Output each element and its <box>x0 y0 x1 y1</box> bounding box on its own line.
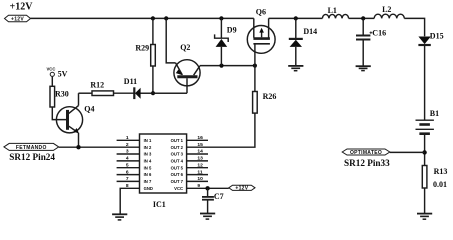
wire pin 10 stub <box>187 180 208 182</box>
capacitor C16 <box>356 18 370 65</box>
resistor R29 <box>151 18 156 93</box>
svg-text:11: 11 <box>197 169 202 175</box>
power flag +12V top-left <box>5 15 31 22</box>
svg-text:6: 6 <box>126 169 129 175</box>
node junction dot D9 anode <box>219 64 223 68</box>
ground below R13 <box>417 214 432 220</box>
wire Q2 emitter feed <box>166 18 175 63</box>
wire pin 8 stub to ground <box>120 188 139 214</box>
svg-text:OUT 5: OUT 5 <box>171 165 184 170</box>
svg-text:C16: C16 <box>372 28 386 37</box>
node junction dot D9/rail <box>219 16 223 20</box>
svg-text:IN 5: IN 5 <box>144 165 152 170</box>
svg-text:IN 3: IN 3 <box>144 152 152 157</box>
svg-text:OUT 7: OUT 7 <box>171 179 184 184</box>
transistor Q6 (MOSFET) <box>247 18 275 65</box>
svg-text:9: 9 <box>197 183 200 189</box>
wire pin 9 stub to +12V flag <box>187 187 229 189</box>
wire pin 6 stub <box>117 174 140 176</box>
node junction dot D14/rail <box>294 16 298 20</box>
svg-text:Q6: Q6 <box>256 7 266 16</box>
node junction dot battery/R13/flag <box>422 150 426 154</box>
node junction dot Q4 emitter/pin2 wire <box>76 145 80 149</box>
svg-text:5: 5 <box>126 162 129 168</box>
svg-text:R26: R26 <box>263 92 277 101</box>
IC1 pin numbers right <box>197 135 203 189</box>
svg-text:R29: R29 <box>135 43 149 52</box>
svg-text:1: 1 <box>126 135 129 141</box>
resistor R13 <box>422 166 427 214</box>
ground below pin 8 <box>112 214 127 220</box>
svg-text:10: 10 <box>197 176 203 182</box>
ground below C16 <box>356 66 371 70</box>
wire pin 16 stub <box>187 139 208 141</box>
wire pin 14 stub <box>187 153 208 155</box>
wire pin 7 stub <box>117 180 140 182</box>
svg-text:+12V: +12V <box>11 16 24 22</box>
svg-text:IN 2: IN 2 <box>144 145 152 150</box>
svg-text:OUT 2: OUT 2 <box>171 145 184 150</box>
resistor R12 <box>79 91 134 96</box>
wire pin 1 stub <box>117 139 140 141</box>
transistor Q2 (PNP) <box>174 60 200 93</box>
svg-text:OUT 6: OUT 6 <box>171 172 184 177</box>
wire +12V rail right segment <box>269 17 323 19</box>
node junction dot pin9/C7 <box>205 186 209 190</box>
polarity mark C16 <box>370 31 373 34</box>
svg-text:D15: D15 <box>430 31 444 40</box>
ground below C7 <box>200 214 215 220</box>
svg-text:SR12 Pin24: SR12 Pin24 <box>9 152 55 162</box>
wire Q2 collector line to gate node <box>200 65 255 67</box>
power flag +12V at pin 9 <box>229 185 255 190</box>
svg-text:0.01: 0.01 <box>433 180 447 189</box>
svg-text:C7: C7 <box>214 192 224 201</box>
wire pin 3 stub <box>117 153 140 155</box>
svg-text:+12V: +12V <box>235 186 248 192</box>
node junction dot Q2 emitter feed/rail <box>164 16 168 20</box>
svg-text:13: 13 <box>197 156 203 162</box>
svg-text:8: 8 <box>126 183 129 189</box>
resistor R30 <box>50 86 66 119</box>
svg-text:OUT 1: OUT 1 <box>171 138 184 143</box>
resistor R26 <box>187 66 257 148</box>
svg-text:R12: R12 <box>90 81 104 90</box>
wire pin 11 stub <box>187 174 208 176</box>
diode D11 <box>134 87 187 99</box>
svg-text:VCC: VCC <box>47 67 56 72</box>
net flag OPTIMATEO <box>342 149 424 155</box>
capacitor C7 <box>202 188 214 213</box>
svg-text:D9: D9 <box>227 26 237 35</box>
svg-text:OUT 4: OUT 4 <box>171 159 184 164</box>
svg-text:SR12 Pin33: SR12 Pin33 <box>344 158 390 168</box>
svg-text:OUT 3: OUT 3 <box>171 152 184 157</box>
svg-text:7: 7 <box>126 176 129 182</box>
net flag FETMANDO <box>4 143 140 150</box>
svg-text:3: 3 <box>126 149 129 155</box>
svg-text:D14: D14 <box>303 27 317 36</box>
svg-text:Q2: Q2 <box>180 43 190 52</box>
svg-text:L2: L2 <box>382 5 391 14</box>
ground below D14 <box>288 66 303 71</box>
svg-text:IN 7: IN 7 <box>144 179 152 184</box>
svg-text:14: 14 <box>197 149 203 155</box>
op-amp IC1 box <box>140 134 187 193</box>
inductor L1 <box>322 14 348 18</box>
svg-text:IN 1: IN 1 <box>144 138 152 143</box>
inductor L2 <box>374 14 404 18</box>
svg-text:FETMANDO: FETMANDO <box>16 145 47 151</box>
IC1 pin numbers left <box>126 135 129 189</box>
svg-text:5V: 5V <box>58 69 68 78</box>
svg-text:16: 16 <box>197 135 203 141</box>
svg-text:4: 4 <box>126 156 129 162</box>
wire pin 5 stub <box>117 167 140 169</box>
svg-text:R30: R30 <box>55 89 69 98</box>
wire rail between L1 and L2 <box>349 17 375 19</box>
wire battery node to R13 <box>424 152 426 165</box>
svg-text:VCC: VCC <box>174 186 183 191</box>
node junction dot R29/D11/Q2 base <box>151 91 155 95</box>
svg-text:R13: R13 <box>434 167 448 176</box>
power VCC 5V symbol <box>50 72 54 86</box>
svg-text:IN 4: IN 4 <box>144 159 152 164</box>
svg-text:B1: B1 <box>430 109 439 118</box>
diode D9 (zener) <box>215 18 229 65</box>
wire pin 12 stub <box>187 167 208 169</box>
IC1 pin names <box>144 138 184 191</box>
node junction dot C16/rail <box>361 16 365 20</box>
transistor Q4 (NPN) <box>56 93 82 147</box>
battery B1 <box>416 120 434 152</box>
wire Q2 base to R29/D11 junction <box>140 92 187 94</box>
diode D14 <box>289 18 303 65</box>
svg-text:L1: L1 <box>328 6 337 15</box>
diode D15 <box>418 37 430 120</box>
svg-text:12: 12 <box>197 162 203 168</box>
wire +12V rail left segment <box>31 17 254 19</box>
svg-text:OPTIMATEO: OPTIMATEO <box>350 150 382 156</box>
node junction dot R29/rail <box>151 16 155 20</box>
svg-text:+12V: +12V <box>10 1 34 12</box>
svg-text:GND: GND <box>144 186 153 191</box>
svg-text:2: 2 <box>126 142 129 148</box>
wire pin 13 stub <box>187 160 208 162</box>
svg-text:IN 6: IN 6 <box>144 172 152 177</box>
svg-text:IC1: IC1 <box>153 200 166 209</box>
wire pin 4 stub <box>117 160 140 162</box>
svg-text:15: 15 <box>197 142 203 148</box>
wire rail L2 to D15 corner <box>404 18 424 36</box>
svg-text:D11: D11 <box>124 77 137 86</box>
node junction dot Q6 gate / R26 <box>253 64 257 68</box>
svg-text:Q4: Q4 <box>84 105 94 114</box>
